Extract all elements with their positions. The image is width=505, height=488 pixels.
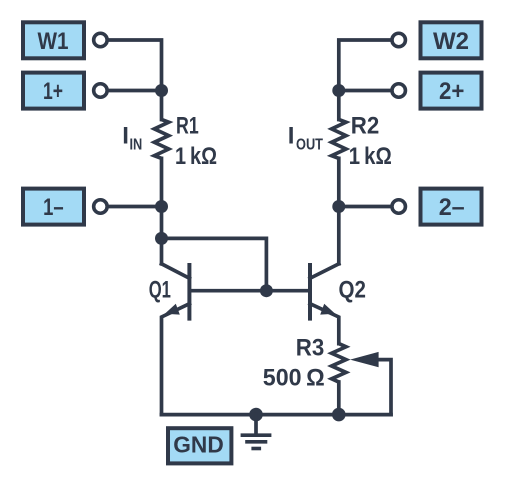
terminal box 2- [421, 189, 482, 225]
terminal circle 1+ [94, 84, 108, 98]
terminal circle 1- [94, 200, 108, 214]
terminal circle W2 [392, 33, 406, 47]
node dot 1- [155, 200, 168, 213]
wire wiper return [377, 360, 391, 415]
resistor R2 [332, 120, 346, 159]
node dot 2- [332, 200, 345, 213]
svg-text:W2: W2 [433, 28, 469, 55]
svg-text:R3: R3 [296, 334, 325, 361]
label I_IN [122, 123, 142, 154]
wire W1 to node [109, 40, 162, 88]
terminal circle 2+ [392, 84, 406, 98]
wire base Q1-Q2 [191, 289, 309, 293]
svg-text:R1: R1 [176, 113, 199, 140]
terminal box 1- [23, 189, 84, 225]
svg-text:I: I [122, 123, 129, 150]
label I_OUT [288, 123, 324, 154]
svg-text:W1: W1 [38, 28, 69, 55]
node dot ground [249, 408, 263, 422]
wire 1- node down to collector corner [160, 207, 164, 264]
wire 2+ to node [341, 89, 390, 93]
svg-text:OUT: OUT [296, 136, 323, 153]
node dot R3 bottom [332, 408, 346, 422]
transistor Q1 base bar [187, 265, 191, 319]
svg-text:Q1: Q1 [149, 277, 171, 304]
terminal box GND [168, 428, 231, 463]
wire 1- to node [109, 205, 159, 209]
wire R3 bottom [337, 382, 341, 415]
wire 2- to node [341, 205, 390, 209]
transistor Q2 emitter [310, 304, 339, 344]
wire R2 bottom to 2- node [337, 158, 341, 206]
wire R1 bottom to 1- node [160, 158, 164, 206]
resistor R3 [332, 344, 346, 382]
svg-text:2–: 2– [439, 194, 465, 221]
terminal box 2+ [421, 73, 482, 109]
node dot 2+ [332, 84, 345, 97]
svg-text:GND: GND [173, 432, 224, 458]
wire 1+ to node [109, 89, 159, 93]
wire bottom rail [162, 413, 392, 417]
wire Q2 collector diagonal [310, 264, 339, 279]
svg-text:Q2: Q2 [339, 277, 366, 304]
wire 2- node down to Q2 collector corner [337, 207, 341, 264]
svg-text:I: I [288, 123, 295, 150]
ground symbol [241, 415, 272, 449]
wire node to R2 top [337, 91, 341, 120]
arrow Q2 emitter [320, 304, 335, 315]
svg-text:IN: IN [130, 136, 143, 153]
terminal box W1 [23, 22, 84, 58]
arrow Q1 emitter [165, 304, 180, 315]
terminal circle W1 [94, 33, 108, 47]
svg-text:2+: 2+ [439, 78, 464, 105]
wire Q1 collector diagonal [162, 264, 190, 279]
svg-text:500 Ω: 500 Ω [263, 364, 325, 391]
transistor Q1 emitter [162, 304, 190, 415]
node dot 1+ [155, 84, 168, 97]
svg-text:1–: 1– [43, 194, 64, 221]
svg-text:1 kΩ: 1 kΩ [349, 143, 392, 170]
svg-text:R2: R2 [351, 113, 380, 140]
wire node to R1 top [160, 91, 164, 120]
wire collector-base tie [162, 238, 267, 288]
svg-text:1+: 1+ [43, 78, 63, 105]
node dot Q1 collector tie [155, 232, 168, 245]
node dot base junction [260, 284, 273, 297]
terminal box 1+ [23, 73, 84, 109]
wiper arrow R3 [350, 352, 379, 367]
terminal box W2 [421, 22, 482, 58]
resistor R1 [154, 120, 168, 159]
svg-text:1 kΩ: 1 kΩ [175, 143, 217, 170]
wire W2 to node [339, 40, 391, 88]
terminal circle 2- [392, 200, 406, 214]
transistor Q2 base bar [308, 265, 312, 319]
